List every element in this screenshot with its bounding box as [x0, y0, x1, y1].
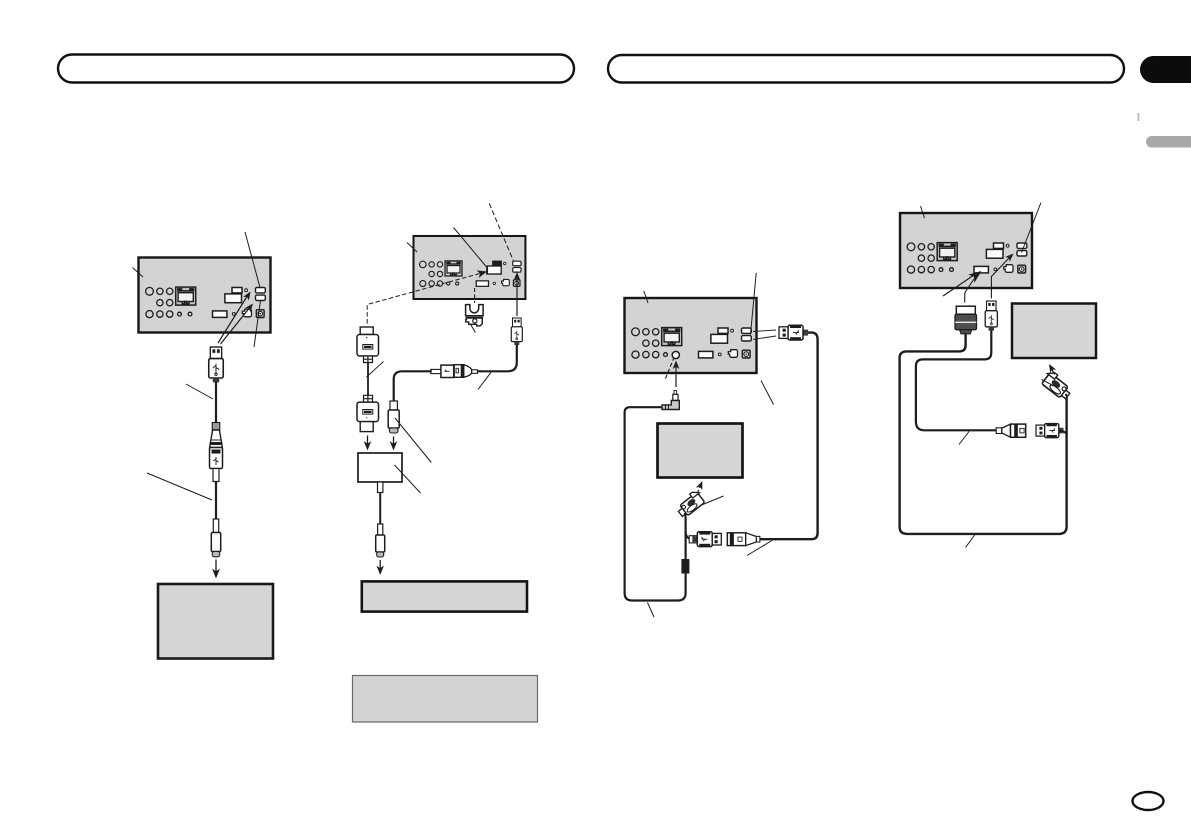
smartphone gray box [658, 424, 743, 478]
USB branch wire [686, 531, 697, 539]
rings [689, 536, 697, 543]
mini plug of extension [212, 423, 220, 431]
leader to extension wire [747, 541, 772, 556]
device gray box (iPod/iPhone) [158, 584, 273, 659]
device gray bar (bordered) [362, 581, 527, 611]
header pill left [58, 55, 574, 83]
arrow from USB plug into lower USB port [516, 277, 518, 316]
dashed leader from clamp to panel [474, 288, 476, 303]
USB plug into panel (tip left) [779, 325, 808, 340]
extension receptacle (opening right) [996, 424, 1025, 437]
leader to outer loop [966, 535, 976, 548]
USB wire: inner loop to extension receptacle [916, 331, 997, 431]
arrow down [367, 436, 369, 446]
leader to panel (top-left) [407, 243, 417, 253]
long leader from above to USB port [1022, 203, 1042, 253]
extension receptacle (flared) [210, 430, 223, 448]
head unit rear panel (column 2, smaller) [414, 236, 526, 299]
arrow from plug up into jack [675, 366, 677, 387]
lightning connector (angled) [674, 489, 706, 519]
head unit rear panel (column 4) [900, 213, 1032, 288]
leader to lightning connector [702, 496, 724, 505]
extension receptacle [727, 533, 760, 546]
30-pin dock connector (lower, mirrored) [357, 395, 379, 431]
leader to panel (top-left) [921, 206, 925, 218]
small gray tick [1138, 113, 1140, 121]
interface adapter white box [358, 453, 402, 482]
USB-A plug of Y-cable [692, 532, 721, 547]
arrow down [393, 437, 395, 446]
leader to adapter box [395, 465, 421, 493]
wire from USB plug, turning left [478, 345, 517, 372]
black side tab [1140, 56, 1191, 83]
wire [215, 382, 217, 423]
arrow down to device [215, 560, 217, 573]
ferrite core [681, 559, 689, 574]
line from USB plug to lower USB port [991, 258, 1009, 299]
leader to wire [147, 473, 212, 500]
page number ellipse [1133, 792, 1164, 810]
USB cable plug (top of chain) [209, 347, 223, 382]
arrow 1 to iPod source port [943, 274, 976, 296]
head unit rear panel (column 3) [625, 298, 757, 373]
USB plug (right chain) [511, 318, 522, 345]
AUX input jack (highlighted) [672, 351, 679, 358]
lightning connector into adapter [390, 401, 397, 410]
arrow 2 (bent) to iPod source port [965, 279, 974, 303]
arrow line 1 from plug to USB port 1 [218, 297, 247, 344]
leader to extension wire [478, 372, 491, 389]
highlighted USB source box [493, 261, 501, 266]
cord clamp icon [466, 305, 484, 326]
leader to inner loop [959, 432, 969, 445]
leader to lightning connector [395, 418, 431, 463]
note gray bar (lower) [353, 676, 538, 723]
header pill right [608, 55, 1124, 83]
wire [367, 363, 369, 396]
dashed leader arrow from dock connector to USB source box [367, 273, 481, 324]
lightning connector (angled) [1040, 369, 1074, 401]
short wire joining vertical run [1059, 431, 1067, 434]
leader to wire [186, 384, 213, 399]
extension wire up right side to panel USB plug [760, 333, 818, 540]
dashed arrow to smartphone [697, 486, 701, 495]
insertion guide lines [753, 330, 776, 332]
right-angle stereo mini plug [662, 391, 679, 410]
USB plug (inner) [985, 301, 997, 331]
dock wire: outer loop to lightning connector [900, 334, 1067, 534]
wire [215, 482, 217, 520]
iPod 30-pin dock connector (dark) [955, 306, 977, 334]
leader at panel bottom right [761, 381, 774, 405]
leader to panel (top-left) [133, 268, 144, 278]
leader to loop bottom [648, 603, 655, 618]
head unit rear panel (column 1) [139, 258, 271, 333]
arrow down [379, 560, 381, 570]
long leader to USB ports from above [751, 273, 757, 335]
device-end connector [213, 519, 218, 533]
gray side tab [1146, 136, 1191, 148]
AUX wire: long loop from plug to Y-junction [625, 407, 686, 600]
long dashed leader to USB ports [489, 204, 513, 262]
extension joint: plug + receptacle [431, 365, 478, 378]
leader to left wire [367, 362, 384, 378]
30-pin dock connector (upper) [357, 327, 379, 363]
wire to lightning connector [394, 371, 432, 401]
connector to device [378, 524, 383, 535]
USB-A plug of lightning cable (tip left) [1036, 424, 1064, 438]
leader to iPod-source box black bar [454, 228, 488, 268]
leader from above to USB port 1 [245, 232, 260, 288]
leader to panel (top-left) [644, 291, 648, 303]
leader from clamp [471, 325, 476, 333]
leader from USB port 2 downward [254, 301, 261, 348]
arrow to smartphone [1052, 369, 1055, 375]
smartphone gray box [1012, 304, 1096, 359]
arrow line 2 from plug to USB port 2 [221, 309, 250, 345]
leader to lightning connector [1042, 380, 1054, 386]
dashed leader to jack [666, 358, 675, 379]
adapter tail [378, 482, 383, 493]
